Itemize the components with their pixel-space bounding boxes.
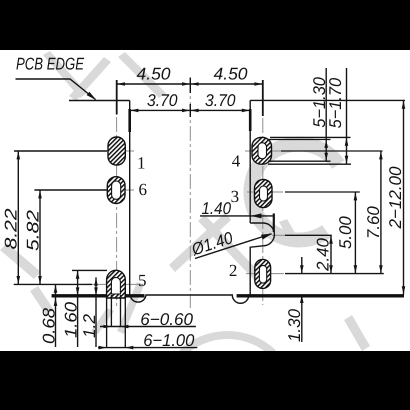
- pad4 slot line bottom: [268, 160, 331, 162]
- dimension 7.60: [380, 151, 382, 274]
- top black bar: [0, 0, 410, 50]
- leader O1.40: [195, 234, 272, 259]
- svg-text:1.30: 1.30: [285, 308, 304, 342]
- pad4 top extension: [270, 136, 351, 138]
- dimension 3.70 pair: [130, 104, 250, 117]
- pad2 center extension: [285, 273, 384, 275]
- pad5 inner-right extension: [120, 295, 122, 327]
- PCB edge line left: [69, 100, 130, 102]
- pad 5: [107, 270, 126, 298]
- pad 2: [255, 259, 271, 288]
- dimension 5-1.30: [325, 68, 327, 161]
- svg-text:3.70: 3.70: [147, 91, 178, 110]
- pad4 bottom extension: [268, 163, 351, 165]
- pad 1: [108, 137, 125, 165]
- svg-text:4.50: 4.50: [137, 65, 172, 84]
- pad 3: [255, 180, 273, 208]
- dimension 6-0.60: [100, 326, 196, 328]
- dimension 1.30 upper arrow: [301, 257, 303, 274]
- PCB EDGE leader: [16, 79, 96, 100]
- center line middle: [189, 78, 191, 308]
- svg-text:8.22: 8.22: [2, 208, 21, 250]
- svg-text:1.40: 1.40: [202, 199, 232, 218]
- dimension 0.68: [55, 284, 57, 347]
- bottom black bar: [0, 351, 410, 410]
- thick stub right edge: [249, 109, 252, 131]
- pad 4: [252, 137, 272, 164]
- svg-text:7.60: 7.60: [364, 206, 383, 239]
- svg-text:4: 4: [232, 151, 241, 170]
- dimension 1.40: [200, 215, 274, 217]
- thick solder line right: [237, 294, 404, 297]
- pad5 inner-left extension: [110, 295, 112, 327]
- dimension 2-12.00: [403, 100, 405, 294]
- dimension 5.82: [34, 189, 107, 191]
- svg-text:1: 1: [137, 154, 146, 173]
- hole notch on right edge: [250, 223, 274, 295]
- body bottom line with notches: [130, 295, 251, 303]
- dimension 1.2: [95, 277, 97, 347]
- dimension 6-1.00: [98, 347, 197, 349]
- watermark bottom arc: [182, 335, 273, 353]
- svg-text:3: 3: [231, 187, 240, 206]
- svg-text:6−0.60: 6−0.60: [140, 310, 193, 329]
- svg-text:1.60: 1.60: [62, 301, 81, 338]
- svg-text:5.00: 5.00: [336, 216, 355, 249]
- svg-text:PCB EDGE: PCB EDGE: [16, 55, 85, 74]
- dimension 8.22: [14, 150, 107, 152]
- body left edge: [129, 101, 131, 296]
- svg-text:6−1.00: 6−1.00: [143, 331, 195, 350]
- svg-text:2: 2: [229, 261, 238, 280]
- svg-text:4.50: 4.50: [214, 65, 249, 84]
- dimension 1.60: [72, 269, 107, 271]
- svg-text:1.2: 1.2: [80, 313, 99, 338]
- pad3 center extension: [285, 191, 360, 193]
- pad5 outer-right extension: [124, 295, 126, 348]
- body right edge upper: [249, 100, 251, 223]
- center line pads 1/6/5: [116, 117, 118, 308]
- svg-text:5−1.70: 5−1.70: [326, 77, 345, 128]
- pad5 outer-left extension: [106, 295, 108, 348]
- pad 6: [107, 177, 125, 204]
- dimension 2.40: [330, 235, 332, 273]
- thick stub left edge: [128, 109, 131, 132]
- thick solder line left: [52, 294, 145, 297]
- pad center crosses: [85, 151, 285, 284]
- PCB edge line right: [250, 99, 405, 101]
- svg-text:5: 5: [138, 271, 147, 290]
- svg-text:2−12.00: 2−12.00: [386, 166, 405, 230]
- dimension 1.30 lower line: [301, 295, 303, 342]
- dimension 5-1.70: [346, 68, 348, 164]
- watermark: [0, 51, 370, 351]
- center line pads 4/3/2: [262, 118, 264, 305]
- dimension 5.00: [354, 192, 356, 274]
- svg-text:0.68: 0.68: [40, 307, 59, 344]
- pad4 slot line top: [268, 139, 331, 141]
- svg-text:2.40: 2.40: [314, 238, 333, 272]
- hole center extension: [285, 234, 332, 236]
- svg-text:5.82: 5.82: [23, 209, 42, 251]
- dimension 4.50 pair: [117, 78, 263, 117]
- svg-text:3.70: 3.70: [205, 91, 236, 110]
- svg-text:6: 6: [139, 180, 148, 199]
- watermark big C: [251, 144, 338, 240]
- svg-text:Ø1.40: Ø1.40: [189, 228, 236, 259]
- pad4 center extension: [281, 150, 383, 152]
